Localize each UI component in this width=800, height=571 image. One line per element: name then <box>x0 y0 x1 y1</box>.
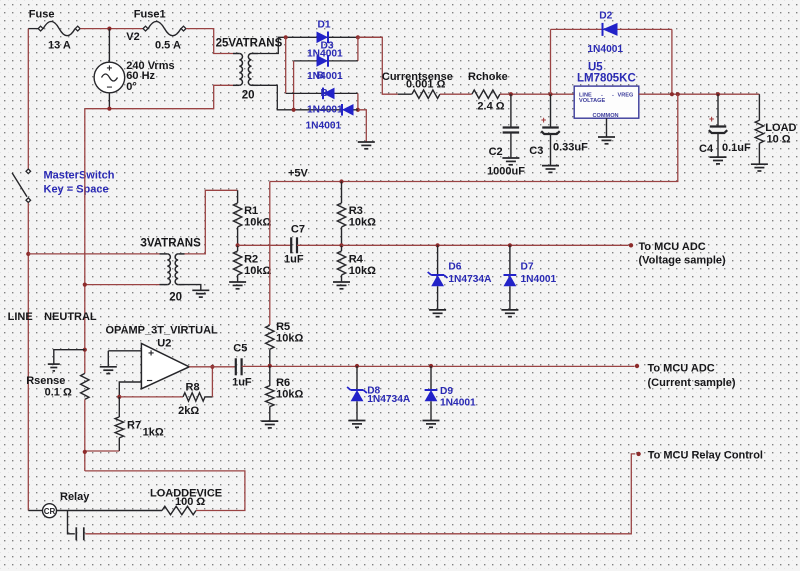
ground neutral reference <box>48 363 60 365</box>
wire opamp + input to ground <box>108 350 141 352</box>
svg-text:+: + <box>148 348 154 360</box>
capacitor C5 1uF <box>235 358 237 375</box>
wire neutral ground stub <box>54 350 85 364</box>
resistor R3 10k <box>341 182 343 204</box>
resistor Rchoke 2.4 ohm <box>472 90 500 98</box>
wire secondary top to bridge <box>258 37 286 53</box>
svg-text:(Voltage sample): (Voltage sample) <box>639 255 727 267</box>
svg-text:R6: R6 <box>276 377 290 389</box>
node junction D6 <box>436 243 440 247</box>
svg-text:1N4734A: 1N4734A <box>448 274 492 285</box>
node junction D8 <box>355 364 359 368</box>
svg-text:To MCU ADC: To MCU ADC <box>648 363 715 375</box>
resistor LOAD 10 ohm <box>758 94 760 120</box>
svg-text:Fuse: Fuse <box>29 9 55 21</box>
svg-text:Fuse1: Fuse1 <box>134 9 166 21</box>
node junction C4 <box>716 92 720 96</box>
svg-text:0.1uF: 0.1uF <box>722 142 751 154</box>
svg-text:10kΩ: 10kΩ <box>349 265 376 277</box>
resistor R6 10k <box>269 366 271 386</box>
svg-text:D2: D2 <box>599 11 612 22</box>
wire Fuse1 to 25VATRANS primary <box>186 29 233 54</box>
wire +5V feed down to rail <box>270 94 678 181</box>
svg-text:R8: R8 <box>186 382 200 394</box>
svg-text:(Current sample): (Current sample) <box>648 377 736 389</box>
svg-text:1N4001: 1N4001 <box>521 274 557 285</box>
svg-text:13 A: 13 A <box>48 40 71 52</box>
svg-text:−: − <box>147 375 153 387</box>
svg-text:D1: D1 <box>318 20 331 31</box>
svg-text:B: B <box>321 88 328 99</box>
svg-text:1N4001: 1N4001 <box>587 44 623 55</box>
svg-text:100 Ω: 100 Ω <box>175 496 205 508</box>
resistor R1 10k <box>237 190 239 203</box>
resistor R7 1k <box>118 397 120 417</box>
node junction Rsense bottom <box>83 450 87 454</box>
ground D8 <box>349 420 366 422</box>
wire 3VA secondary bottom to ground <box>185 285 201 290</box>
transformer 3VATRANS secondary <box>175 254 178 285</box>
diode D1 1N4001 row1 <box>317 32 329 44</box>
diode D5 row4 pointing left <box>342 104 354 116</box>
svg-text:C2: C2 <box>489 146 503 158</box>
ground 3VATRANS secondary <box>192 289 209 291</box>
svg-text:-: - <box>612 92 614 98</box>
wire opamp output <box>189 366 236 368</box>
wire opamp - input <box>119 382 141 397</box>
svg-text:+5V: +5V <box>288 168 309 180</box>
wire U5 output rail <box>639 93 760 95</box>
svg-text:R3: R3 <box>349 205 363 217</box>
ground C2 <box>502 157 519 159</box>
terminal To MCU ADC current <box>635 364 639 368</box>
switch MasterSwitch Key=Space <box>26 169 31 174</box>
node junction neutral ground tap <box>83 348 87 352</box>
svg-text:V2: V2 <box>126 31 139 43</box>
svg-text:0°: 0° <box>126 81 137 93</box>
ground D9 <box>423 420 440 422</box>
svg-text:1N4001: 1N4001 <box>306 121 342 132</box>
svg-text:Key = Space: Key = Space <box>44 184 109 196</box>
svg-text:1N4001: 1N4001 <box>440 398 476 409</box>
wire R7 bottom to Rsense bottom <box>85 450 120 452</box>
node junction opamp output feedback <box>210 365 214 369</box>
node junction 3VA primary bottom to NEUTRAL <box>85 284 160 286</box>
node junction D2 right <box>670 92 674 96</box>
wire bridge row2-left down to row4 <box>293 61 295 110</box>
ground R2 <box>229 281 246 283</box>
wire U5 common to ground <box>606 118 608 136</box>
ground LOAD <box>751 163 768 165</box>
relay contact <box>75 527 77 540</box>
svg-text:10 Ω: 10 Ω <box>767 134 791 146</box>
svg-text:10kΩ: 10kΩ <box>349 217 376 229</box>
svg-text:R1: R1 <box>244 205 258 217</box>
svg-text:0.33uF: 0.33uF <box>553 142 588 154</box>
wire LOADDEVICE to neutral return <box>85 471 245 511</box>
wire D2 right vertical <box>671 29 673 94</box>
resistor Currentsense 0.001 ohm <box>398 93 412 95</box>
wire relay contact branch <box>68 511 75 534</box>
resistor LOADDEVICE 100 ohm <box>162 506 196 514</box>
svg-text:R2: R2 <box>244 254 258 266</box>
terminal To MCU ADC voltage <box>629 243 633 247</box>
svg-text:C4: C4 <box>699 143 714 155</box>
node junction V2 bottom <box>107 107 111 111</box>
diode D7 1N4001 <box>509 245 511 275</box>
ground D6 <box>429 309 446 311</box>
svg-text:C5: C5 <box>233 343 247 355</box>
svg-text:OPAMP_3T_VIRTUAL: OPAMP_3T_VIRTUAL <box>106 325 219 337</box>
terminal To MCU Relay Control <box>636 452 640 456</box>
svg-text:D9: D9 <box>440 386 453 397</box>
wire bridge row1 <box>286 36 383 38</box>
svg-text:10kΩ: 10kΩ <box>244 217 271 229</box>
ground bridge minus <box>358 141 375 143</box>
node junction C3 / D2 left <box>548 92 552 96</box>
ground R6 <box>261 420 278 422</box>
node bridge - row4 right <box>356 108 360 112</box>
svg-text:LM7805KC: LM7805KC <box>577 73 636 85</box>
svg-text:Rsense: Rsense <box>26 375 65 387</box>
svg-text:MasterSwitch: MasterSwitch <box>44 170 115 182</box>
capacitor C2 1000uF <box>510 94 512 127</box>
node junction R3 R4 <box>339 243 343 247</box>
svg-text:1kΩ: 1kΩ <box>143 426 164 438</box>
relay coil CR <box>28 510 42 512</box>
wire LINE top from left vertical to fuse <box>28 28 39 30</box>
node junction R7 R8 inverting <box>117 395 121 399</box>
wire NEUTRAL vertical <box>84 109 86 374</box>
node bridge row4 left <box>292 108 296 112</box>
svg-text:0.001 Ω: 0.001 Ω <box>406 79 446 91</box>
svg-text:C7: C7 <box>291 224 305 236</box>
ground U5 COMMON <box>598 136 615 138</box>
zener D6 1N4734A <box>437 245 439 275</box>
ground C4 <box>710 156 727 158</box>
node junction R1 R2 C7 <box>236 243 240 247</box>
wire Rchoke to U5 input <box>500 93 574 95</box>
node junction V2 top <box>107 27 111 31</box>
transformer 25VATRANS secondary coil <box>248 54 251 86</box>
capacitor C3 0.33uF polarized <box>550 94 552 127</box>
wire LINE left vertical <box>27 29 29 169</box>
svg-text:LOAD: LOAD <box>765 122 796 134</box>
svg-text:D7: D7 <box>521 261 534 272</box>
resistor R2 10k <box>237 245 239 251</box>
wire voltage sample line <box>238 244 292 246</box>
svg-text:CR: CR <box>44 507 56 516</box>
node junction R5 R6 <box>268 364 272 368</box>
svg-text:To MCU ADC: To MCU ADC <box>639 241 706 253</box>
svg-text:D6: D6 <box>448 261 461 272</box>
svg-text:R5: R5 <box>276 321 290 333</box>
ground R4 <box>333 281 350 283</box>
wire bridge row3 <box>286 92 358 94</box>
svg-text:To MCU Relay Control: To MCU Relay Control <box>648 450 763 462</box>
node junction D7 <box>508 243 512 247</box>
diode D3 1N4001 row2 <box>317 55 329 67</box>
node junction +5V tap <box>676 92 680 96</box>
node junction C2 <box>509 92 513 96</box>
wire NEUTRAL from V2 bottom <box>85 85 233 108</box>
voltage regulator U5 LM7805KC <box>574 86 639 118</box>
svg-text:2kΩ: 2kΩ <box>178 405 199 417</box>
diode D2 1N4001 bypass <box>550 29 552 94</box>
diode D4 row3 pointing left <box>323 88 335 100</box>
svg-text:B: B <box>317 71 324 82</box>
ground op-amp non-inverting input <box>100 366 117 368</box>
wire +5V down to R5 <box>269 182 271 326</box>
fuse Fuse 13 A <box>38 26 43 31</box>
wire contact to MCU relay control <box>85 454 635 534</box>
svg-text:+: + <box>541 115 546 125</box>
svg-text:R4: R4 <box>349 254 364 266</box>
svg-text:LINE: LINE <box>8 311 33 323</box>
wire +5V rail R3 tap <box>339 179 343 183</box>
wire secondary bottom to bridge row4 <box>258 85 294 110</box>
svg-text:10kΩ: 10kΩ <box>276 388 303 400</box>
wire voltage sample line right <box>342 244 629 246</box>
wire fuse to V2 junction <box>80 28 143 30</box>
svg-text:60 Hz: 60 Hz <box>126 70 155 82</box>
fuse Fuse1 0.5 A <box>143 26 148 31</box>
svg-text:25VATRANS: 25VATRANS <box>216 38 283 50</box>
svg-text:Rchoke: Rchoke <box>468 71 508 83</box>
ground C3 <box>542 165 559 167</box>
svg-text:20: 20 <box>242 90 255 102</box>
resistor R8 2k feedback <box>119 396 183 398</box>
svg-text:10kΩ: 10kΩ <box>244 265 271 277</box>
wire current sample line <box>242 365 635 367</box>
svg-text:1N4001: 1N4001 <box>307 71 343 82</box>
svg-text:R7: R7 <box>127 420 141 432</box>
svg-text:20: 20 <box>169 292 182 304</box>
svg-text:3VATRANS: 3VATRANS <box>141 238 202 250</box>
svg-text:1N4734A: 1N4734A <box>367 394 411 405</box>
svg-text:1uF: 1uF <box>284 254 304 266</box>
svg-text:1000uF: 1000uF <box>487 166 525 178</box>
svg-text:2.4 Ω: 2.4 Ω <box>477 101 504 113</box>
wire bridge row4 <box>294 109 358 111</box>
svg-text:+: + <box>709 114 714 124</box>
svg-text:+: + <box>106 64 112 75</box>
wire LINE vertical below switch <box>27 203 29 511</box>
wire to 3VATRANS primary top <box>28 253 159 255</box>
svg-text:1N4001: 1N4001 <box>307 105 343 116</box>
svg-text:U2: U2 <box>157 338 171 350</box>
zener D8 1N4734A <box>356 366 358 390</box>
svg-text:VREG: VREG <box>618 92 634 98</box>
svg-text:C3: C3 <box>529 145 543 157</box>
svg-text:NEUTRAL: NEUTRAL <box>44 311 97 323</box>
svg-text:VOLTAGE: VOLTAGE <box>579 98 605 104</box>
wire bridge minus to ground <box>358 110 366 142</box>
node bridge + output <box>356 35 360 39</box>
wire bridge right vertical row1-row2 <box>357 37 359 61</box>
AC source V2 240Vrms 60Hz <box>108 29 110 62</box>
wire bridge right vertical row3-row4 <box>357 93 359 109</box>
svg-text:10kΩ: 10kΩ <box>276 333 303 345</box>
svg-text:Relay: Relay <box>60 491 90 503</box>
wire bridge + output to Currentsense <box>358 37 398 94</box>
capacitor C4 0.1uF polarized <box>717 94 719 126</box>
svg-text:D3: D3 <box>321 41 334 52</box>
wire relay to LOADDEVICE <box>57 510 163 512</box>
resistor Rsense 0.1 ohm <box>81 373 89 399</box>
node bridge AC1 left <box>284 35 288 39</box>
svg-text:0.1 Ω: 0.1 Ω <box>45 387 72 399</box>
diode D9 1N4001 <box>430 366 432 390</box>
resistor R4 10k <box>341 245 343 251</box>
wire 3VA secondary top to R1 <box>185 190 238 254</box>
svg-text:0.5 A: 0.5 A <box>155 40 181 52</box>
wire bridge left vertical AC1 <box>285 37 287 93</box>
svg-text:1uF: 1uF <box>232 377 252 389</box>
svg-text:−: − <box>106 83 112 94</box>
resistor R5 10k <box>266 325 274 349</box>
capacitor C7 1uF <box>290 237 292 253</box>
wire bridge row2 <box>294 60 358 62</box>
ground D7 <box>501 309 518 311</box>
node junction 3VATRANS primary tap <box>26 252 30 256</box>
node junction D9 <box>429 364 433 368</box>
